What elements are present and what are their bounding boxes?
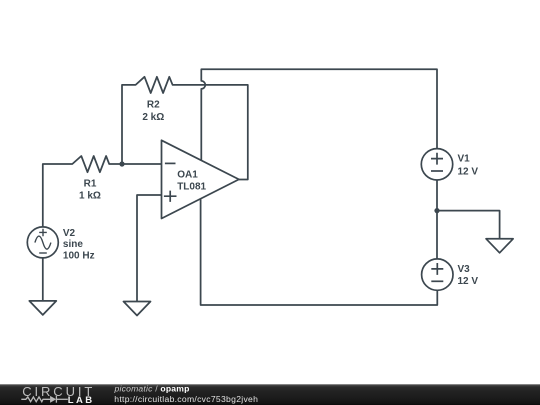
svg-text:12 V: 12 V	[458, 166, 479, 177]
svg-text:R1: R1	[84, 179, 97, 190]
svg-text:http://circuitlab.com/cvc753bg: http://circuitlab.com/cvc753bg2jveh	[114, 394, 258, 404]
svg-text:sine: sine	[63, 239, 83, 250]
svg-text:V3: V3	[458, 264, 471, 275]
svg-text:V1: V1	[458, 154, 471, 165]
svg-text:TL081: TL081	[177, 181, 206, 192]
svg-text:1 kΩ: 1 kΩ	[79, 190, 101, 201]
svg-text:OA1: OA1	[177, 169, 198, 180]
svg-text:12 V: 12 V	[458, 276, 479, 287]
svg-text:R2: R2	[147, 100, 160, 111]
svg-text:picomatic / opamp: picomatic / opamp	[114, 384, 190, 393]
svg-text:LAB: LAB	[68, 395, 95, 405]
svg-text:V2: V2	[63, 228, 76, 239]
svg-text:2 kΩ: 2 kΩ	[142, 112, 164, 123]
svg-text:100 Hz: 100 Hz	[63, 250, 95, 261]
